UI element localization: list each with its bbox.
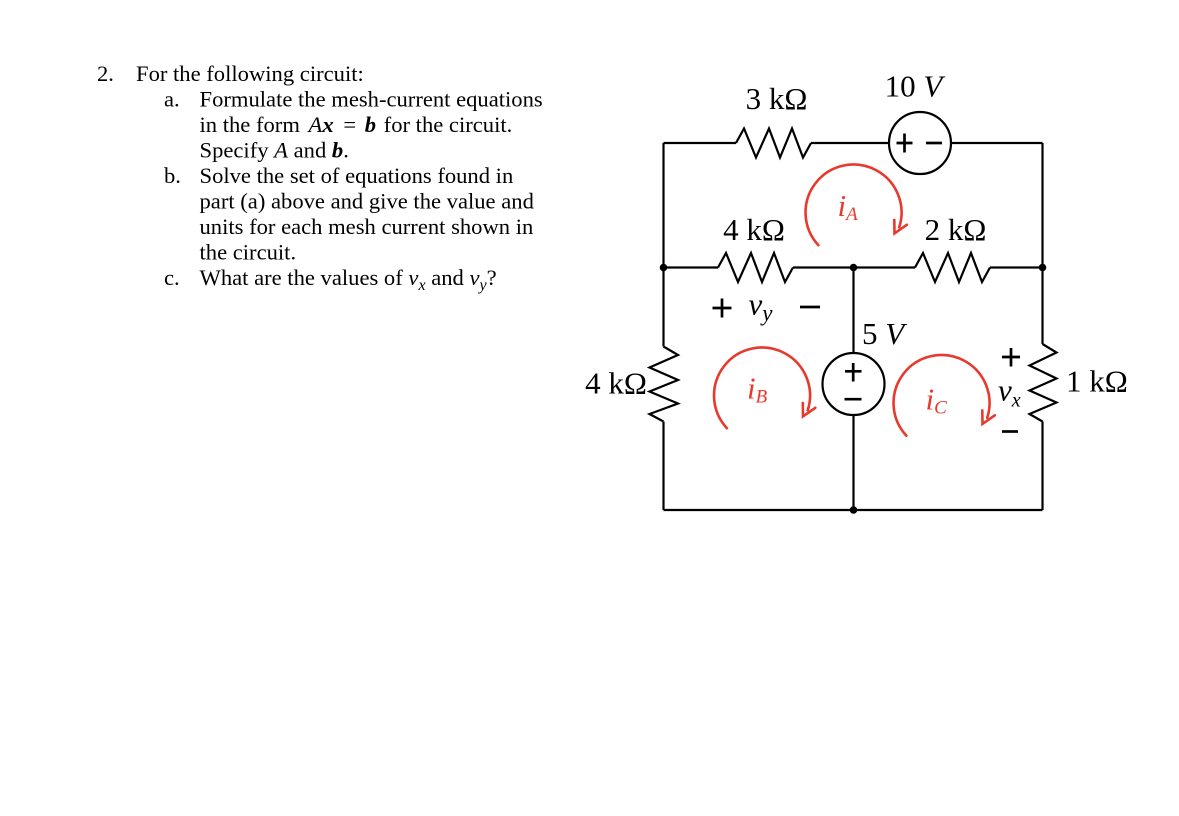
svg-text:in the form Ax = b for the cir: in the form Ax = b for the circuit. xyxy=(200,112,513,137)
resistor 4 kOhm (left rail, vertical) xyxy=(650,347,679,422)
wire top rail left segment xyxy=(664,142,737,144)
svg-text:b.: b. xyxy=(164,163,181,188)
svg-text:5 V: 5 V xyxy=(862,316,907,351)
voltage source 10V circle xyxy=(889,112,951,174)
problem statement text xyxy=(97,61,543,294)
svg-text:For the following circuit:: For the following circuit: xyxy=(136,61,364,86)
wire middle branch upper xyxy=(852,268,854,354)
svg-text:iA: iA xyxy=(838,188,859,225)
minus sign inside 10V source xyxy=(926,142,942,145)
plus sign inside 10V source xyxy=(897,134,913,153)
plus sign of vy xyxy=(713,299,732,318)
plus sign of vx xyxy=(1002,348,1020,367)
node dot center-middle xyxy=(850,264,858,272)
svg-text:1 kΩ: 1 kΩ xyxy=(1066,364,1128,399)
svg-text:a.: a. xyxy=(164,87,180,112)
wire left rail upper xyxy=(662,143,664,347)
wire middle branch lower xyxy=(852,415,854,510)
svg-text:Solve the set of equations fou: Solve the set of equations found in xyxy=(200,163,514,188)
svg-text:2 kΩ: 2 kΩ xyxy=(925,212,987,247)
svg-text:iB: iB xyxy=(747,371,768,408)
arrowhead iA xyxy=(894,220,907,234)
arrowhead iC xyxy=(982,410,995,424)
svg-text:10 V: 10 V xyxy=(885,69,946,104)
minus sign inside 5V source xyxy=(845,398,862,401)
svg-text:vx: vx xyxy=(998,373,1021,412)
resistor 2 kOhm (middle rail) xyxy=(915,253,990,282)
wire middle rail center segment xyxy=(793,266,915,268)
svg-text:What are the values of vx and: What are the values of vx and vy? xyxy=(200,265,497,294)
svg-text:Formulate the mesh-current equ: Formulate the mesh-current equations xyxy=(200,87,543,112)
svg-text:4 kΩ: 4 kΩ xyxy=(723,212,785,247)
resistor 3 kOhm (top rail) xyxy=(736,129,811,158)
node dot bottom xyxy=(850,506,858,514)
wire middle rail right segment xyxy=(990,266,1043,268)
wire left rail lower xyxy=(662,422,664,511)
svg-text:Specify A and b.: Specify A and b. xyxy=(200,138,349,163)
mesh current arc iB xyxy=(714,348,810,429)
minus sign of vy xyxy=(800,306,820,309)
node dot left-middle xyxy=(660,264,668,272)
node dot right-middle xyxy=(1039,264,1047,272)
wire bottom rail xyxy=(664,509,1043,511)
voltage source 5V circle xyxy=(823,353,885,415)
wire right rail lower xyxy=(1041,422,1043,511)
svg-text:units for each mesh current sh: units for each mesh current shown in xyxy=(200,214,534,239)
svg-text:part (a) above and give the va: part (a) above and give the value and xyxy=(200,189,535,214)
svg-text:4 kΩ: 4 kΩ xyxy=(585,366,647,401)
svg-text:iC: iC xyxy=(926,382,948,419)
mesh current arc iC xyxy=(894,355,990,436)
resistor 1 kOhm (right rail, vertical) xyxy=(1030,344,1057,422)
minus sign of vx xyxy=(1002,430,1018,433)
wire middle rail left segment xyxy=(664,266,719,268)
svg-text:the circuit.: the circuit. xyxy=(200,240,297,265)
wire top rail middle segment xyxy=(811,142,889,144)
mesh current arc iA xyxy=(806,165,902,246)
arrowhead iB xyxy=(803,403,816,417)
svg-text:2.: 2. xyxy=(97,61,114,86)
svg-text:vy: vy xyxy=(749,287,774,326)
plus sign inside 5V source xyxy=(845,363,862,382)
wire top rail right segment xyxy=(951,142,1043,144)
resistor 4 kOhm (middle rail) xyxy=(718,253,793,282)
svg-text:3 kΩ: 3 kΩ xyxy=(746,81,808,116)
svg-text:c.: c. xyxy=(164,265,180,290)
wire right rail upper xyxy=(1041,143,1043,344)
